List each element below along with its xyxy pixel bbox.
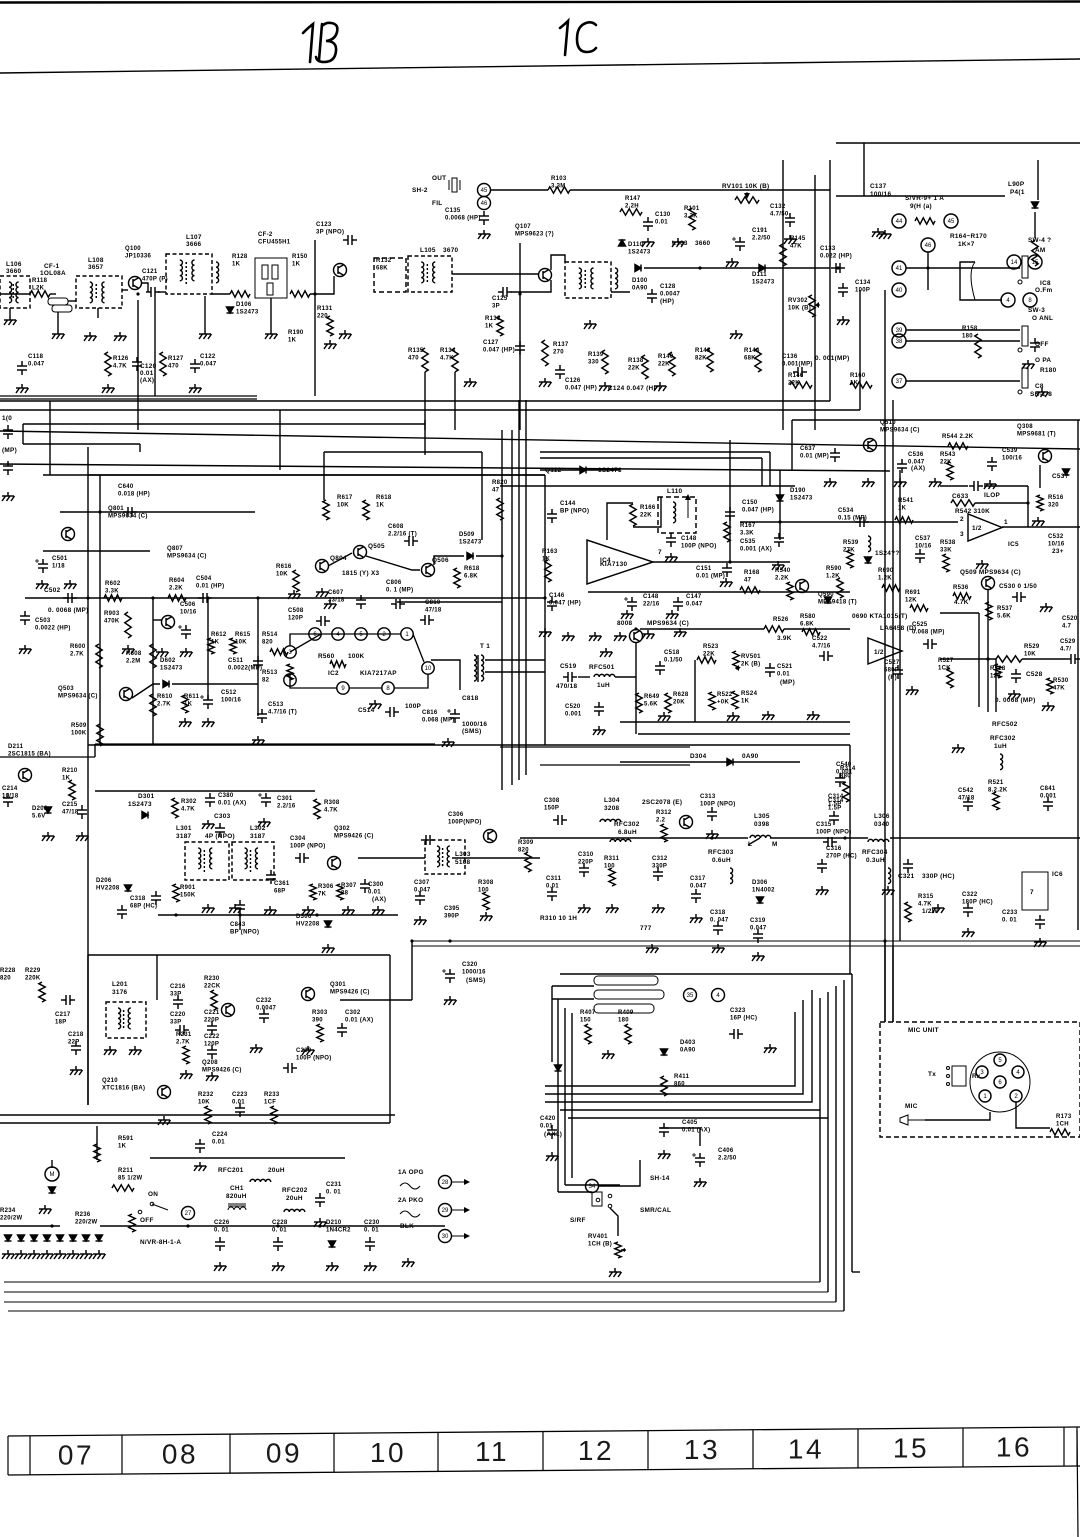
ground C130b	[672, 238, 685, 247]
transistor Q210	[158, 1086, 171, 1099]
capacitor C313	[707, 807, 717, 821]
bus seg y452	[540, 451, 770, 453]
capacitor c161	[1030, 338, 1040, 352]
ground c137	[879, 230, 892, 239]
svg-text:(MP): (MP)	[2, 447, 17, 454]
capacitor C810	[420, 615, 434, 625]
switch ON-OFF	[138, 1202, 168, 1214]
svg-text:R233: R233	[264, 1092, 280, 1098]
wire x815 vert	[814, 175, 816, 430]
svg-text:0. 0068 (MP): 0. 0068 (MP)	[48, 607, 89, 614]
svg-text:L105: L105	[420, 247, 436, 254]
svg-text:(MP): (MP)	[780, 679, 795, 686]
ground rf4	[302, 906, 315, 915]
ground c320	[444, 996, 457, 1005]
capacitor C537	[915, 549, 925, 563]
svg-text:C301: C301	[277, 796, 293, 802]
resistor R314	[843, 782, 849, 802]
svg-text:18P: 18P	[55, 1020, 67, 1026]
pot RV501	[733, 651, 739, 669]
capacitor C512 plus	[200, 696, 204, 698]
capacitor C216	[173, 995, 183, 1009]
ground r543	[929, 478, 942, 487]
resistor R604	[168, 595, 186, 601]
ground tx5	[712, 944, 725, 953]
svg-text:C640: C640	[118, 484, 134, 490]
wire left vert x157	[156, 955, 158, 1000]
capacitor C214	[3, 793, 13, 807]
coil RFC501	[594, 674, 615, 677]
svg-text:Q301: Q301	[330, 982, 346, 988]
svg-text:3P (NPO): 3P (NPO)	[316, 230, 344, 236]
junction dot 21	[410, 939, 413, 942]
svg-text:C318: C318	[710, 910, 726, 916]
wire sub bottom2	[638, 733, 850, 735]
svg-text:Q505: Q505	[368, 543, 385, 550]
svg-text:R903: R903	[104, 611, 120, 617]
svg-text:C306: C306	[448, 812, 464, 818]
coil RFC302b	[1000, 754, 1003, 770]
svg-text:8: 8	[386, 686, 390, 692]
svg-text:R615: R615	[235, 632, 251, 638]
svg-text:R126: R126	[113, 356, 129, 362]
capacitor C215	[77, 805, 87, 819]
trunk v x518	[511, 430, 513, 785]
transistor Q101	[334, 264, 347, 277]
svg-text:220/2W: 220/2W	[75, 1220, 98, 1226]
capacitor C522	[819, 651, 833, 661]
capacitor C520	[594, 702, 604, 716]
svg-text:R308: R308	[324, 800, 340, 806]
svg-text:0. 047: 0. 047	[710, 918, 729, 924]
svg-text:L304: L304	[604, 797, 620, 804]
svg-text:4: 4	[1016, 1070, 1020, 1076]
svg-text:4.7/: 4.7/	[1060, 647, 1071, 653]
svg-text:9: 9	[341, 686, 345, 692]
diode array D3	[31, 1235, 38, 1241]
svg-text:470: 470	[168, 364, 179, 370]
svg-text:KIA7130: KIA7130	[600, 561, 627, 568]
svg-text:10K: 10K	[1024, 652, 1036, 658]
bus wire E	[23, 443, 140, 445]
svg-text:R529: R529	[1024, 644, 1040, 650]
svg-text:10: 10	[370, 1437, 406, 1468]
capacitor C150	[725, 507, 735, 521]
wire Q107 emitter	[511, 280, 551, 292]
wire box y946	[412, 945, 1080, 947]
resistor R611	[182, 695, 188, 713]
resistor R529	[996, 656, 1022, 662]
bus corner x860	[859, 290, 861, 410]
resistor RS24	[732, 691, 738, 709]
ground mr1	[539, 628, 552, 637]
ground q804	[316, 588, 329, 597]
svg-text:100P (NPO): 100P (NPO)	[681, 544, 717, 550]
ground tx7	[816, 886, 829, 895]
audio box left	[88, 474, 545, 476]
mic pin 2	[1010, 1090, 1022, 1102]
ground q210	[158, 1116, 171, 1125]
wire d509 link	[434, 556, 464, 565]
connector 4b	[712, 989, 725, 1002]
wire R103 right	[570, 189, 830, 191]
wire vert x280	[279, 410, 281, 470]
svg-text:RV401: RV401	[588, 1234, 608, 1240]
svg-text:1/2: 1/2	[874, 649, 884, 656]
svg-text:MPS9681 (T): MPS9681 (T)	[1017, 432, 1056, 438]
svg-text:C303: C303	[214, 813, 231, 820]
switch S2 wafer 2	[594, 990, 664, 999]
svg-text:C521: C521	[777, 664, 793, 670]
svg-text:C501: C501	[52, 556, 68, 562]
svg-text:R131: R131	[317, 306, 333, 312]
ground c151	[720, 578, 733, 587]
diode d308	[1063, 469, 1070, 475]
capacitor C230	[283, 1063, 297, 1073]
svg-text:R522: R522	[717, 692, 733, 698]
wire s2 wires	[552, 985, 594, 987]
svg-text:41: 41	[896, 266, 903, 272]
capacitor C529c	[1066, 654, 1080, 664]
svg-text:3.3K: 3.3K	[105, 589, 119, 595]
resistor R528	[995, 664, 1001, 678]
capacitor C126	[555, 365, 565, 379]
svg-text:R591: R591	[118, 1136, 134, 1142]
resistor R137	[542, 340, 548, 366]
junction dot 30	[710, 836, 713, 839]
svg-text:C148: C148	[643, 594, 659, 600]
svg-text:MPS9634 (C): MPS9634 (C)	[647, 620, 689, 627]
coil RFC302	[610, 839, 631, 842]
ground pw1	[214, 1262, 227, 1271]
svg-text:C226: C226	[214, 1220, 230, 1226]
wire D111 line	[700, 267, 830, 269]
capacitor C222	[207, 1045, 217, 1059]
svg-text:R516: R516	[1048, 495, 1064, 501]
ground d211b	[76, 832, 89, 841]
resistor R128	[230, 291, 250, 297]
IF transformer L107	[166, 254, 212, 294]
svg-text:35: 35	[687, 993, 694, 999]
capacitor C132	[785, 213, 795, 227]
s2 trunk b	[564, 1008, 566, 1185]
resistor R901	[173, 884, 179, 902]
resistor R139	[602, 350, 608, 374]
svg-text:68P (HC): 68P (HC)	[130, 904, 157, 910]
ground lo4	[206, 1072, 219, 1081]
junction dot 24	[986, 657, 989, 660]
wire conn45 right	[490, 189, 548, 191]
svg-text:0.047: 0.047	[690, 884, 707, 890]
svg-text:4.7/16: 4.7/16	[812, 644, 831, 650]
sheet top border line	[0, 2, 1080, 3]
svg-text:C522: C522	[812, 636, 828, 642]
svg-text:C405: C405	[682, 1120, 698, 1126]
wire rf mix	[452, 857, 540, 859]
svg-text:C420: C420	[540, 1116, 556, 1122]
svg-text:C232: C232	[256, 998, 272, 1004]
svg-text:33P: 33P	[170, 1020, 182, 1026]
svg-text:RFC502: RFC502	[992, 721, 1018, 728]
ceramic filter CF-2	[255, 258, 287, 298]
svg-text:R590: R590	[826, 566, 842, 572]
svg-text:SW-3: SW-3	[1028, 307, 1045, 314]
svg-text:3670: 3670	[443, 247, 459, 254]
resistor R309	[525, 852, 531, 872]
ground q807	[156, 648, 169, 657]
wire top right h1	[836, 142, 1080, 144]
resistor R302	[172, 798, 178, 818]
svg-text:R690: R690	[878, 568, 894, 574]
crystal filter FIL sym	[449, 178, 460, 192]
capacitor C315	[823, 837, 837, 847]
ground c406	[694, 1178, 707, 1187]
wire box y940	[412, 940, 1080, 942]
ground array 5	[54, 1250, 67, 1259]
wire q112 row	[540, 469, 620, 471]
wire q008 r526 line	[784, 628, 850, 630]
svg-text:C120: C120	[140, 363, 157, 370]
wire vert x695b	[694, 660, 696, 722]
resistor R691	[910, 605, 928, 611]
resistor R163	[545, 560, 551, 582]
svg-text:3187: 3187	[176, 833, 192, 840]
switch SMR	[592, 1192, 612, 1208]
svg-text:0. 01: 0. 01	[214, 1228, 229, 1234]
svg-text:C512: C512	[221, 690, 237, 696]
ground tx9	[962, 928, 975, 937]
svg-text:2: 2	[960, 516, 964, 523]
svg-text:R618: R618	[464, 566, 480, 572]
svg-text:L305: L305	[754, 813, 770, 820]
wire CF-2 gnd	[270, 298, 272, 330]
capacitor C818 plus	[447, 710, 451, 712]
svg-text:C222: C222	[204, 1034, 220, 1040]
ground rfc	[952, 744, 965, 753]
svg-text:R540: R540	[775, 568, 791, 574]
svg-text:47K: 47K	[790, 244, 802, 250]
ground r516	[1032, 517, 1045, 526]
svg-text:1K: 1K	[485, 324, 494, 330]
capacitor C406	[695, 1153, 705, 1167]
wire rf out	[358, 857, 425, 859]
svg-text:3176: 3176	[112, 989, 128, 996]
svg-text:R135: R135	[408, 348, 424, 354]
resistor R591	[94, 1144, 100, 1162]
svg-text:OUT: OUT	[432, 175, 446, 182]
wire q807 base	[153, 619, 162, 621]
svg-text:10: 10	[425, 666, 432, 672]
right sheet edge below ruler	[1077, 1430, 1078, 1537]
svg-text:0.022 (HP): 0.022 (HP)	[820, 254, 852, 260]
resistor R608	[150, 644, 156, 668]
svg-text:10K: 10K	[276, 572, 288, 578]
transistor D211	[19, 769, 32, 782]
r542 wire	[975, 502, 1028, 504]
capacitor C121	[146, 287, 160, 297]
svg-text:82: 82	[262, 678, 270, 684]
capacitor C191	[735, 237, 745, 251]
ground array 8	[93, 1250, 106, 1259]
svg-text:22CK: 22CK	[204, 984, 221, 990]
svg-text:L108: L108	[88, 257, 104, 264]
ground rf1	[202, 904, 215, 913]
ground mr3	[589, 632, 602, 641]
ground rf2	[229, 904, 242, 913]
bundle right v7	[892, 946, 894, 1022]
rv401 wire	[610, 1208, 618, 1236]
wire q008 collector line	[640, 628, 764, 630]
svg-text:R232: R232	[198, 1092, 214, 1098]
svg-text:4.7: 4.7	[1062, 624, 1072, 630]
ground r row2	[539, 378, 552, 387]
capacitor C306	[421, 835, 435, 845]
svg-text:C118: C118	[28, 354, 44, 360]
bus corner x425	[424, 420, 426, 455]
svg-text:O.Fm: O.Fm	[1035, 287, 1053, 294]
svg-text:5: 5	[998, 1058, 1002, 1064]
svg-text:R820: R820	[492, 480, 508, 486]
svg-text:45: 45	[948, 219, 955, 225]
svg-text:470: 470	[408, 356, 419, 362]
resistor R166	[630, 504, 636, 526]
svg-text:R234: R234	[0, 1208, 16, 1214]
wire can L103 out	[611, 291, 630, 293]
svg-text:C810: C810	[425, 600, 441, 606]
resistor R138	[642, 355, 648, 379]
wire L105 to Q107	[452, 273, 538, 275]
svg-text:150P: 150P	[544, 806, 559, 812]
resistor R158	[975, 334, 981, 358]
capacitor C146	[547, 597, 557, 611]
resistor R612	[208, 638, 214, 654]
svg-text:390P: 390P	[444, 914, 459, 920]
svg-text:1K: 1K	[232, 262, 241, 268]
pot RV401 arrow	[621, 1249, 626, 1251]
svg-text:RFC302: RFC302	[990, 735, 1016, 742]
ground C134	[837, 316, 850, 325]
wire r591 v	[96, 1126, 98, 1160]
IC2 pin 1	[401, 628, 413, 640]
ground c405	[658, 1150, 671, 1159]
svg-text:(AX): (AX)	[372, 896, 386, 903]
wire vert x208	[207, 598, 209, 700]
svg-text:C217: C217	[55, 1012, 71, 1018]
svg-text:R538: R538	[940, 540, 956, 546]
svg-text:1N4CR2: 1N4CR2	[326, 1228, 351, 1234]
wire d602 out	[172, 683, 258, 685]
svg-text:D211: D211	[8, 744, 24, 750]
capacitor C130	[643, 217, 653, 231]
coil RFC201	[250, 1179, 271, 1182]
svg-text:SMR/CAL: SMR/CAL	[640, 1207, 671, 1214]
ground pw4	[364, 1262, 377, 1271]
resistor R306	[310, 884, 316, 900]
svg-text:220P: 220P	[578, 860, 593, 866]
resistor R600	[96, 644, 102, 668]
IF transformer L108	[76, 276, 122, 308]
resistor R303	[317, 1024, 323, 1042]
box audio bottom	[0, 1114, 395, 1116]
r529 line	[940, 658, 996, 660]
svg-text:47/18: 47/18	[958, 796, 975, 802]
resistor R160	[850, 382, 872, 388]
capacitor C317	[691, 889, 701, 903]
svg-text:4.7K: 4.7K	[324, 808, 338, 814]
resistor R167	[724, 522, 730, 542]
svg-text:11: 11	[475, 1436, 509, 1467]
svg-text:R158: R158	[962, 326, 978, 332]
ground array 4	[41, 1250, 54, 1259]
svg-text:R407: R407	[580, 1010, 596, 1016]
resistor R521	[993, 792, 999, 810]
capacitor C406 plus	[692, 1154, 696, 1156]
capacitor C230b	[365, 1237, 375, 1251]
svg-text:0340: 0340	[874, 821, 890, 828]
svg-text:0.01 (MP): 0.01 (MP)	[696, 574, 725, 580]
svg-text:R509: R509	[71, 723, 87, 729]
resistor R131	[327, 316, 333, 336]
capacitor C310	[579, 863, 589, 877]
transistor Q107	[539, 269, 552, 282]
svg-text:100P (NPO): 100P (NPO)	[700, 802, 736, 808]
diode array D7	[83, 1235, 90, 1241]
svg-text:1uH: 1uH	[994, 743, 1007, 750]
svg-text:4.7K: 4.7K	[181, 807, 195, 813]
svg-text:1: 1	[405, 632, 409, 638]
svg-text:1/2: 1/2	[972, 525, 982, 532]
svg-text:C525: C525	[912, 622, 928, 628]
svg-text:0.068 (MP): 0.068 (MP)	[912, 630, 945, 636]
junction dot 14	[50, 1224, 53, 1227]
resistor R903	[125, 612, 131, 638]
svg-text:0.047: 0.047	[414, 888, 431, 894]
audio line top	[43, 550, 150, 552]
wire q506 link	[366, 556, 420, 570]
svg-text:C841: C841	[1040, 786, 1056, 792]
svg-text:C133: C133	[820, 246, 836, 252]
connector 30	[439, 1230, 452, 1243]
switch SW3	[1018, 326, 1028, 352]
svg-text:0.001: 0.001	[565, 712, 582, 718]
wire d509 out	[476, 555, 502, 557]
svg-text:L110: L110	[667, 488, 683, 495]
svg-text:7: 7	[658, 549, 662, 556]
svg-text:1CH (B): 1CH (B)	[588, 1242, 612, 1248]
svg-text:777: 777	[640, 925, 652, 932]
svg-text:13: 13	[684, 1434, 720, 1465]
svg-text:0.001(MP): 0.001(MP)	[782, 362, 813, 368]
resistor R514	[270, 649, 288, 655]
junction dot 9	[500, 554, 503, 557]
junction dot 8	[98, 510, 101, 513]
svg-text:R311: R311	[604, 856, 620, 862]
svg-text:470/18: 470/18	[556, 683, 577, 690]
bus wire C	[23, 423, 425, 425]
wire rfc501 link	[615, 676, 636, 678]
transistor Q008	[630, 630, 643, 643]
ground CF-2	[265, 330, 278, 339]
svg-text:CF-2: CF-2	[258, 232, 273, 238]
svg-text:10/16: 10/16	[180, 610, 197, 616]
capacitor C120	[132, 357, 142, 371]
inductor L110 box	[658, 497, 696, 533]
ground L108 b	[114, 332, 127, 341]
connector 8	[1023, 293, 1037, 307]
wire pw row	[0, 1225, 60, 1227]
capacitor C134	[838, 283, 848, 297]
connector 15	[1028, 255, 1042, 269]
